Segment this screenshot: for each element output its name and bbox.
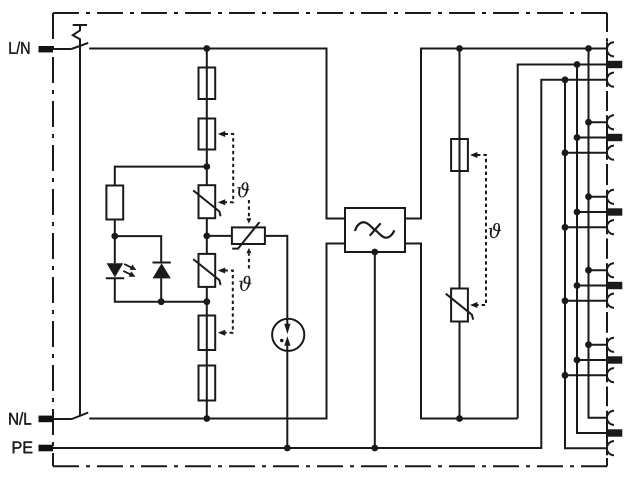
- resistor R1 (LED series): [106, 186, 123, 220]
- wire bus A to socket 4: [589, 269, 608, 271]
- node F: [158, 298, 165, 305]
- wire bus A to socket 2: [589, 121, 608, 123]
- node bus C top: [562, 76, 569, 83]
- wire column through fuses F1 F2: [206, 49, 208, 186]
- bus C vertical: [565, 80, 607, 449]
- theta label 2: [239, 276, 251, 291]
- enclosure dash-dot border right: [606, 13, 608, 466]
- socket 6 contact arc L: [607, 411, 614, 425]
- filter right stubs to L rail: [405, 49, 607, 219]
- node A: [203, 163, 210, 170]
- wire bus B to socket 2: [577, 137, 608, 139]
- wire bus A to socket 3: [589, 196, 608, 198]
- diode D2: [153, 262, 171, 264]
- socket 3 contact arc L: [607, 190, 614, 204]
- wire V1 to node B: [206, 218, 208, 254]
- wire GDT to PE: [286, 351, 288, 449]
- bus B vertical: [577, 65, 608, 434]
- wire V3 to GDT column: [265, 236, 287, 325]
- dashed thermal link F2-V1: [225, 134, 234, 202]
- wire bus B to socket 4: [577, 285, 608, 287]
- fuse F3: [199, 316, 216, 351]
- wire L rail top left: [89, 49, 345, 219]
- node bus A socket 4: [585, 267, 592, 274]
- terminal PE: [39, 445, 54, 452]
- dashed thermal link V2-F3: [225, 271, 233, 333]
- socket 5 contact arc N: [607, 368, 614, 382]
- outlet group 4 body bar: [562, 263, 623, 308]
- sine symbol: [355, 222, 394, 237]
- bus A vertical: [589, 49, 608, 418]
- node B: [203, 233, 210, 240]
- wire bus B to socket 3: [577, 211, 608, 213]
- dashed thermal link F5-V4: [477, 155, 486, 305]
- node L1: [203, 45, 210, 52]
- LED D1: [107, 263, 124, 277]
- wire node B to V3: [207, 235, 232, 237]
- enclosure dash-dot border bottom: [53, 465, 607, 467]
- right column wire through fuse F5: [459, 49, 461, 289]
- theta label 3: [489, 223, 501, 238]
- gas discharge tube GDT1: [272, 319, 304, 351]
- node bus C socket 2: [562, 149, 569, 156]
- node bus B socket 2: [574, 134, 581, 141]
- terminal N/L: [39, 416, 54, 423]
- socket 3 contact arc N: [607, 220, 614, 234]
- wire V4 to N rail: [459, 322, 461, 419]
- fuse F4: [199, 366, 216, 401]
- LED arrows: [124, 264, 132, 268]
- socket 5 PE contact block: [607, 356, 622, 363]
- terminal L/N: [39, 46, 54, 52]
- node D bottom: [203, 415, 210, 422]
- wire N/L terminal to switch: [53, 418, 72, 420]
- socket 6 PE contact block: [607, 429, 622, 436]
- wire bus B to socket 5: [577, 359, 608, 361]
- wire bus C to socket 5: [565, 374, 607, 376]
- label PE: [13, 442, 33, 454]
- varistor V4: [451, 289, 468, 322]
- label L/N: [9, 41, 29, 53]
- dashed arrow theta1 to V3 top: [248, 200, 250, 218]
- outlet group 5 body bar: [562, 338, 623, 383]
- switch S2 blade (bottom): [72, 413, 88, 419]
- varistor V2: [199, 254, 216, 287]
- node bus A socket 2: [585, 119, 592, 126]
- node bus A socket 5: [585, 341, 592, 348]
- wire LED to bottom: [115, 278, 207, 302]
- filter block U1: [345, 208, 405, 252]
- wire bus C to socket 3: [565, 226, 607, 228]
- socket 1 PE contact block: [607, 61, 622, 68]
- wire PE rail: [53, 80, 607, 448]
- wire N riser to outlet rect bus: [518, 65, 608, 419]
- wire N rail bottom left to filter lower-left stub: [89, 244, 345, 419]
- wire node E to diode branch: [115, 236, 161, 262]
- socket 2 contact arc N: [607, 146, 614, 160]
- node bus A top: [585, 45, 592, 52]
- dashed arrow theta2 to V3 bottom: [248, 253, 250, 268]
- socket 1 contact arc L: [607, 42, 614, 56]
- wire node A to LED branch: [115, 167, 207, 186]
- socket 4 PE contact block: [607, 282, 622, 289]
- fuse F2: [199, 119, 216, 150]
- outlet group 1 body bar: [607, 42, 622, 87]
- socket 2 PE contact block: [607, 134, 622, 141]
- filter bottom node: [371, 249, 378, 256]
- socket 5 contact arc L: [607, 338, 614, 352]
- wire L/N terminal to switch: [53, 48, 71, 50]
- socket 2 contact arc L: [607, 115, 614, 129]
- label N/L: [9, 412, 31, 424]
- fuse F1: [199, 68, 216, 100]
- varistor V3 (horizontal): [232, 227, 265, 244]
- socket 4 contact arc N: [607, 294, 614, 308]
- enclosure dash-dot border left: [52, 13, 54, 466]
- node H on PE: [371, 445, 378, 452]
- node bus B top: [574, 61, 581, 68]
- node N2: [456, 415, 463, 422]
- node E: [111, 233, 118, 240]
- wire bus A to socket 5: [589, 344, 608, 346]
- wire to node E: [114, 220, 116, 264]
- node bus B socket 4: [574, 282, 581, 289]
- node bus A socket 3: [585, 193, 592, 200]
- fuse F5: [451, 139, 468, 171]
- node G on PE: [284, 445, 291, 452]
- wire column through fuses F3 F4: [206, 287, 208, 419]
- socket 4 contact arc L: [607, 263, 614, 277]
- switch S1 actuator with spring and T-bar: [73, 25, 87, 416]
- filter lower right stub to N rail: [405, 244, 518, 419]
- theta label 1: [237, 182, 249, 197]
- varistor V1: [199, 185, 216, 218]
- switch S1 blade: [71, 43, 88, 49]
- wire filter bottom to PE: [374, 252, 376, 448]
- outlet group 2 body bar: [562, 115, 623, 160]
- node bus C socket 3: [562, 224, 569, 231]
- outlet group 6 body bar: [607, 411, 622, 456]
- wire bus C to socket 2: [565, 152, 607, 154]
- node bus C socket 5: [562, 372, 569, 379]
- node bus B socket 5: [574, 357, 581, 364]
- outlet group 3 body bar: [562, 190, 623, 235]
- node C: [203, 298, 210, 305]
- socket 3 PE contact block: [607, 208, 622, 215]
- socket 1 contact arc N: [607, 73, 614, 87]
- node bus B socket 3: [574, 209, 581, 216]
- wire bus C to socket 4: [565, 300, 607, 302]
- enclosure dash-dot border top: [53, 12, 607, 14]
- node bus C socket 4: [562, 297, 569, 304]
- node L2: [456, 45, 463, 52]
- socket 6 contact arc N: [607, 441, 614, 455]
- wire diode to bottom: [160, 278, 162, 301]
